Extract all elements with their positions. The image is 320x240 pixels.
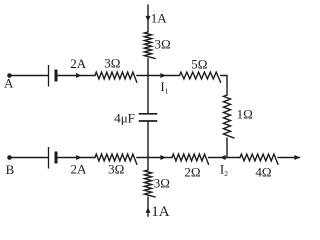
svg-text:4μF: 4μF bbox=[114, 110, 135, 125]
svg-text:4Ω: 4Ω bbox=[255, 165, 271, 180]
svg-text:2A: 2A bbox=[71, 162, 88, 177]
svg-text:3Ω: 3Ω bbox=[154, 175, 170, 190]
svg-text:3Ω: 3Ω bbox=[104, 56, 120, 71]
svg-text:B: B bbox=[6, 162, 15, 177]
svg-text:1Ω: 1Ω bbox=[237, 107, 253, 122]
svg-text:3Ω: 3Ω bbox=[155, 37, 171, 52]
svg-text:1A: 1A bbox=[151, 11, 168, 26]
svg-text:2Ω: 2Ω bbox=[184, 164, 200, 179]
svg-text:5Ω: 5Ω bbox=[191, 57, 207, 72]
svg-text:3Ω: 3Ω bbox=[108, 162, 124, 177]
svg-text:2A: 2A bbox=[70, 56, 87, 71]
svg-text:1A: 1A bbox=[151, 204, 170, 217]
svg-text:A: A bbox=[4, 76, 14, 91]
